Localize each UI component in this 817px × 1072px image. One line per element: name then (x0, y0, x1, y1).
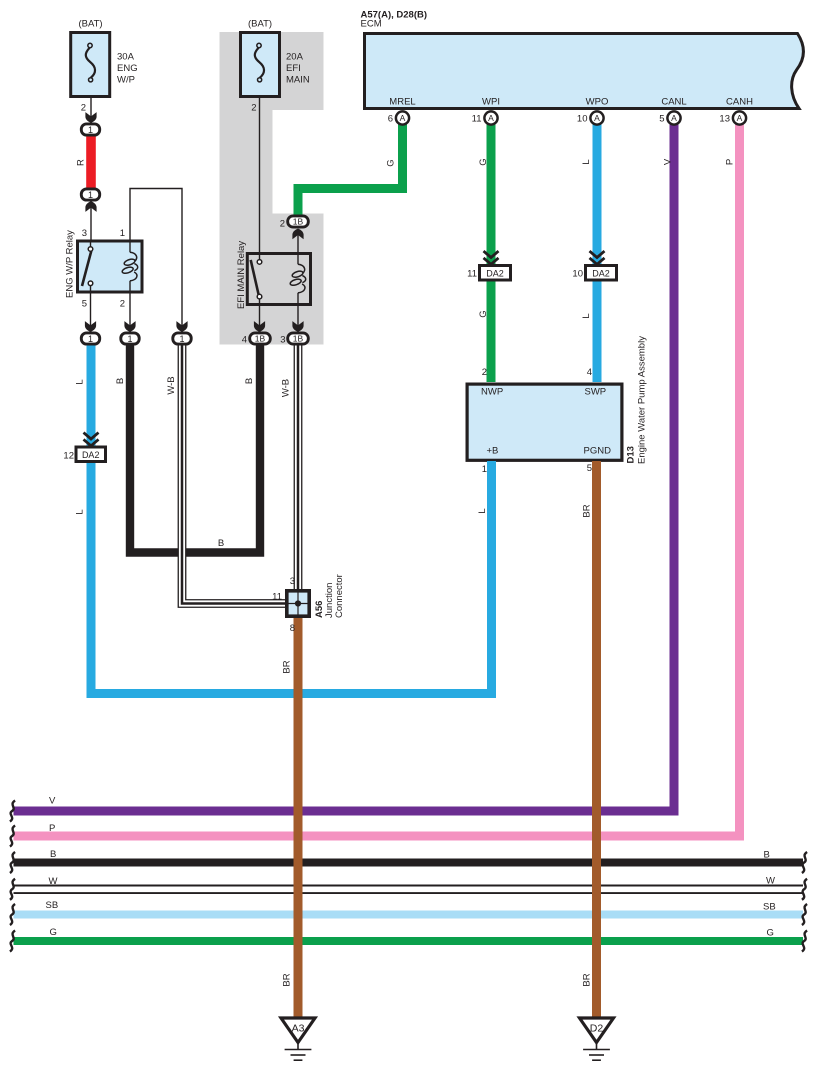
svg-text:ECM: ECM (361, 19, 382, 30)
svg-text:BR: BR (281, 973, 292, 986)
svg-text:B: B (218, 538, 224, 549)
arrow into connector 3 1B (292, 321, 303, 332)
svg-text:MAIN: MAIN (286, 75, 310, 86)
wire L blue relay to pump +B (91, 344, 492, 694)
EFI MAIN relay box (247, 254, 310, 305)
bus wire W white (14, 885, 804, 895)
svg-text:10: 10 (577, 114, 588, 125)
shield connector 11 DA2 (480, 251, 511, 280)
svg-text:WPI: WPI (482, 97, 500, 108)
svg-text:G: G (478, 310, 489, 317)
svg-text:L: L (74, 379, 85, 384)
svg-text:13: 13 (719, 114, 730, 125)
svg-text:L: L (581, 159, 592, 164)
engine water pump assembly box D13 (467, 384, 622, 460)
shaded relay panel (220, 32, 324, 345)
svg-text:EFI MAIN Relay: EFI MAIN Relay (236, 241, 247, 309)
arrow into connector B (124, 321, 135, 332)
bus wire B black (14, 859, 804, 867)
svg-text:L: L (74, 509, 85, 514)
arrow into connector 4 1B (254, 321, 265, 332)
svg-text:EFI: EFI (286, 63, 301, 74)
ENG W/P relay box (78, 241, 143, 292)
svg-text:P: P (49, 823, 55, 834)
pin 13 A CANH (733, 111, 746, 124)
svg-text:1: 1 (120, 228, 125, 239)
EFI MAIN relay switch (251, 252, 262, 306)
fuse 30A element (86, 43, 95, 82)
svg-text:WPO: WPO (586, 97, 609, 108)
wire fuse2 to EFI relay (259, 97, 261, 252)
continuation mark W bus left (10, 879, 15, 900)
svg-text:4: 4 (242, 335, 247, 346)
svg-text:B: B (244, 378, 255, 384)
svg-text:BR: BR (581, 973, 592, 986)
bus wire SB sky blue (14, 911, 804, 919)
pin 11 A WPI (484, 111, 497, 124)
svg-text:ENG W/P Relay: ENG W/P Relay (65, 230, 76, 298)
svg-text:(BAT): (BAT) (78, 19, 102, 30)
svg-text:W-B: W-B (166, 376, 177, 394)
connector 1B pin2 EFI relay (288, 216, 309, 227)
fuse 20A element (255, 43, 264, 82)
svg-text:5: 5 (82, 299, 87, 310)
arrow into connector L (85, 321, 96, 332)
svg-text:R: R (76, 159, 87, 166)
wire W-B from junction pin11 (182, 344, 285, 604)
svg-text:A3: A3 (292, 1023, 305, 1035)
svg-text:V: V (49, 796, 56, 807)
continuation mark G bus left (10, 931, 15, 952)
svg-text:SB: SB (763, 902, 776, 913)
svg-text:L: L (477, 508, 488, 513)
fuse 30A ENG W/P box (71, 33, 110, 97)
svg-text:11: 11 (472, 114, 482, 125)
svg-text:G: G (50, 927, 57, 938)
wire loop relay pin1 to W-B branch (130, 189, 182, 333)
svg-text:(BAT): (BAT) (248, 19, 272, 30)
svg-text:2: 2 (280, 219, 285, 230)
continuation mark G bus right (802, 931, 807, 952)
svg-text:B: B (764, 850, 770, 861)
wire BR brown junction to ground A3 (294, 616, 303, 1020)
svg-text:Engine Water Pump Assembly: Engine Water Pump Assembly (637, 336, 648, 464)
svg-text:11: 11 (467, 269, 477, 280)
svg-text:2: 2 (251, 103, 256, 114)
ENG W/P relay coil (129, 240, 131, 253)
bus wire G green (14, 937, 804, 945)
svg-text:+B: +B (487, 446, 499, 457)
svg-text:5: 5 (659, 114, 664, 125)
wire relay pin 2 down (129, 294, 131, 333)
svg-text:12: 12 (63, 451, 74, 462)
svg-text:MREL: MREL (389, 97, 415, 108)
wire P pink CANH to bus (14, 125, 740, 837)
wire V purple CANL to bus (14, 125, 675, 812)
connector 1 above relay (81, 189, 99, 200)
continuation mark V bus left (10, 801, 15, 822)
arrow up into connector above relay (85, 201, 96, 212)
wire EFI relay pins down (259, 306, 261, 332)
svg-text:G: G (478, 158, 489, 165)
svg-text:1: 1 (482, 464, 487, 475)
svg-text:DA2: DA2 (592, 269, 610, 279)
connector 1 wire B (121, 333, 139, 344)
svg-text:2: 2 (120, 299, 125, 310)
wire connector to relay pin 3 (90, 201, 92, 240)
svg-text:4: 4 (587, 367, 592, 378)
svg-text:PGND: PGND (584, 446, 612, 457)
connector 1 below fuse1 (81, 124, 99, 135)
continuation mark SB bus left (10, 904, 15, 925)
wire R red fuse to relay (86, 134, 96, 190)
svg-text:W-B: W-B (280, 379, 291, 397)
pin 5 A CANL (667, 111, 680, 124)
wire EFI relay coil top (297, 231, 299, 252)
continuation mark SB bus right (802, 904, 807, 925)
connector 1 wire L (81, 333, 99, 344)
ECM box A57/D28 (365, 34, 804, 109)
continuation mark P bus left (10, 826, 15, 847)
svg-text:D2: D2 (590, 1023, 604, 1035)
svg-text:20A: 20A (286, 52, 304, 63)
svg-text:D13: D13 (626, 446, 637, 463)
pin 6 A MREL (396, 111, 409, 124)
svg-text:2: 2 (81, 103, 86, 114)
svg-text:DA2: DA2 (82, 450, 100, 460)
arrow up below 1B pin2 (292, 229, 303, 240)
wire relay pin 5 down (90, 294, 92, 333)
svg-text:10: 10 (572, 269, 583, 280)
svg-text:BR: BR (581, 504, 592, 517)
fuse 20A EFI MAIN box (241, 33, 280, 97)
pin 10 A WPO (590, 111, 603, 124)
svg-text:G: G (385, 159, 396, 166)
connector 1B pin4 (250, 333, 271, 344)
svg-text:ENG: ENG (117, 63, 138, 74)
wire B black loop (130, 344, 260, 553)
svg-text:DA2: DA2 (486, 269, 504, 279)
svg-text:3: 3 (82, 228, 87, 239)
svg-text:2: 2 (482, 367, 487, 378)
svg-text:CANL: CANL (661, 97, 686, 108)
svg-text:NWP: NWP (481, 387, 503, 398)
svg-text:L: L (581, 313, 592, 318)
ENG W/P relay switch (82, 240, 93, 294)
svg-text:B: B (50, 849, 56, 860)
svg-text:SWP: SWP (585, 387, 607, 398)
shield connector 12 DA2 (76, 433, 106, 462)
svg-text:BR: BR (281, 660, 292, 673)
svg-text:W: W (49, 876, 58, 887)
svg-text:V: V (662, 158, 673, 165)
wire W-B from EFI relay to junction pin3 (294, 344, 303, 590)
svg-text:W/P: W/P (117, 75, 135, 86)
ground A3 (281, 1018, 315, 1060)
connector 1 wire W-B (173, 333, 191, 344)
wire BR brown pump PGND to ground D2 (592, 461, 601, 1020)
wire fuse1 to connector (90, 97, 92, 123)
shield connector 10 DA2 (586, 251, 617, 280)
arrow into connector below fuse1 (85, 112, 96, 123)
svg-text:G: G (767, 928, 774, 939)
continuation mark W bus right (802, 879, 807, 900)
svg-text:3: 3 (290, 576, 295, 587)
EFI MAIN relay coil (297, 252, 299, 264)
wire L blue WPO to pump SWP (593, 125, 602, 383)
continuation mark B bus right (802, 852, 807, 873)
ground D2 (580, 1018, 614, 1060)
svg-text:P: P (724, 159, 735, 165)
svg-text:B: B (115, 378, 126, 384)
wire G green MREL to EFI relay (298, 125, 403, 216)
svg-text:11: 11 (272, 592, 282, 603)
connector 1B pin3 (288, 333, 309, 344)
svg-text:Connector: Connector (334, 574, 345, 618)
junction connector A56 (285, 589, 311, 618)
svg-text:8: 8 (290, 623, 295, 634)
svg-text:30A: 30A (117, 52, 135, 63)
svg-text:CANH: CANH (726, 97, 753, 108)
svg-text:W: W (766, 876, 775, 887)
svg-text:5: 5 (587, 463, 592, 474)
svg-text:6: 6 (388, 114, 393, 125)
wire G green WPI to pump NWP (487, 125, 496, 383)
continuation mark B bus left (10, 852, 15, 873)
arrow into connector W-B (176, 321, 187, 332)
svg-text:SB: SB (46, 900, 59, 911)
svg-text:3: 3 (280, 335, 285, 346)
